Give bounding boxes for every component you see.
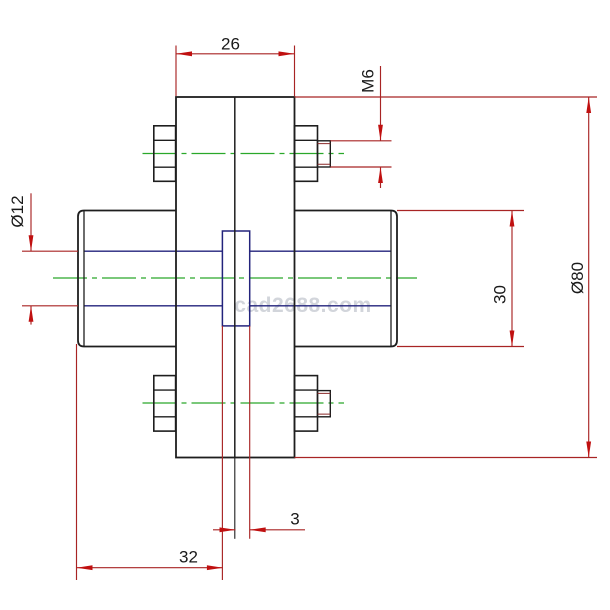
- dimension M6 up arrow: [378, 167, 383, 183]
- dimension M6 line upper: [380, 66, 382, 141]
- dimension phi80 line: [588, 97, 590, 458]
- dimension 32 left arrow: [77, 565, 93, 570]
- bottom nut facet lines: [295, 390, 318, 417]
- right shaft: [295, 211, 398, 347]
- top bolt head: [154, 126, 176, 182]
- dimension 3 right-pointing arrow: [220, 527, 236, 532]
- bottom nut: [295, 376, 318, 432]
- dimension phi12 down arrow: [29, 235, 34, 251]
- flange parting line extension below: [234, 458, 236, 539]
- top bolt head facet lines: [154, 140, 176, 167]
- dimension M6 extension lines: [330, 141, 391, 167]
- svg-text:26: 26: [221, 35, 240, 54]
- sleeve rectangle (blue): [222, 231, 249, 326]
- dimension phi12 line upper: [30, 193, 32, 251]
- dimension M6 down arrow: [378, 125, 383, 141]
- bore hidden line lower (blue): [84, 305, 391, 307]
- top bolt thread minor lines: [318, 144, 331, 165]
- svg-text:3: 3: [290, 510, 299, 529]
- dimension 26 line: [176, 53, 295, 55]
- dimension 3 left segment: [213, 529, 236, 531]
- dimension 3 right segment: [250, 529, 305, 531]
- dimension 30 up arrow: [510, 211, 515, 227]
- dimension 3 left-pointing arrow: [250, 527, 266, 532]
- dimension phi12 up arrow: [29, 306, 34, 322]
- bore hidden line upper (blue): [84, 250, 391, 252]
- dimension phi12 line lower: [30, 306, 32, 325]
- svg-text:32: 32: [179, 548, 198, 567]
- bottom bolt head: [154, 376, 176, 432]
- bottom bolt thread end: [318, 391, 331, 417]
- svg-text:30: 30: [490, 285, 509, 304]
- dimension 26 extension lines: [176, 46, 295, 97]
- dimension 26 right arrow: [279, 51, 295, 56]
- dimension 30 down arrow: [510, 331, 515, 347]
- dimension phi80 extension lines: [295, 97, 598, 458]
- dimension 32 line: [77, 567, 223, 569]
- centerline main shaft axis: [53, 277, 417, 279]
- dimension 30 extension lines: [397, 211, 524, 347]
- top bolt thread end: [318, 141, 331, 167]
- flange body: [176, 97, 295, 458]
- dimension 26 left arrow: [176, 51, 192, 56]
- svg-text:Ø80: Ø80: [568, 262, 587, 294]
- centerline top bolt axis: [143, 153, 345, 155]
- dimension phi12 extension lines: [22, 251, 78, 306]
- bottom bolt head facet lines: [154, 390, 176, 417]
- bottom bolt thread minor lines: [318, 393, 331, 414]
- dimension 32 right arrow: [207, 565, 223, 570]
- dimension 3 extension line right (red): [249, 326, 251, 539]
- svg-text:M6: M6: [358, 69, 377, 93]
- top nut facet lines: [295, 140, 318, 167]
- dimension phi80 up arrow: [586, 97, 591, 113]
- flange parting line: [234, 97, 236, 458]
- centerline bottom bolt axis: [143, 402, 345, 404]
- right shaft chamfer line: [390, 211, 392, 347]
- left shaft chamfer line: [83, 211, 85, 347]
- svg-text:Ø12: Ø12: [8, 195, 27, 227]
- top nut: [295, 126, 318, 182]
- dimension 32 extension line left: [76, 344, 78, 580]
- dimension 3 extension line left (red): [221, 326, 223, 580]
- dimension 30 line: [511, 211, 513, 347]
- left shaft: [78, 211, 176, 347]
- dimension phi80 down arrow: [586, 442, 591, 458]
- dimension M6 line lower: [380, 167, 382, 188]
